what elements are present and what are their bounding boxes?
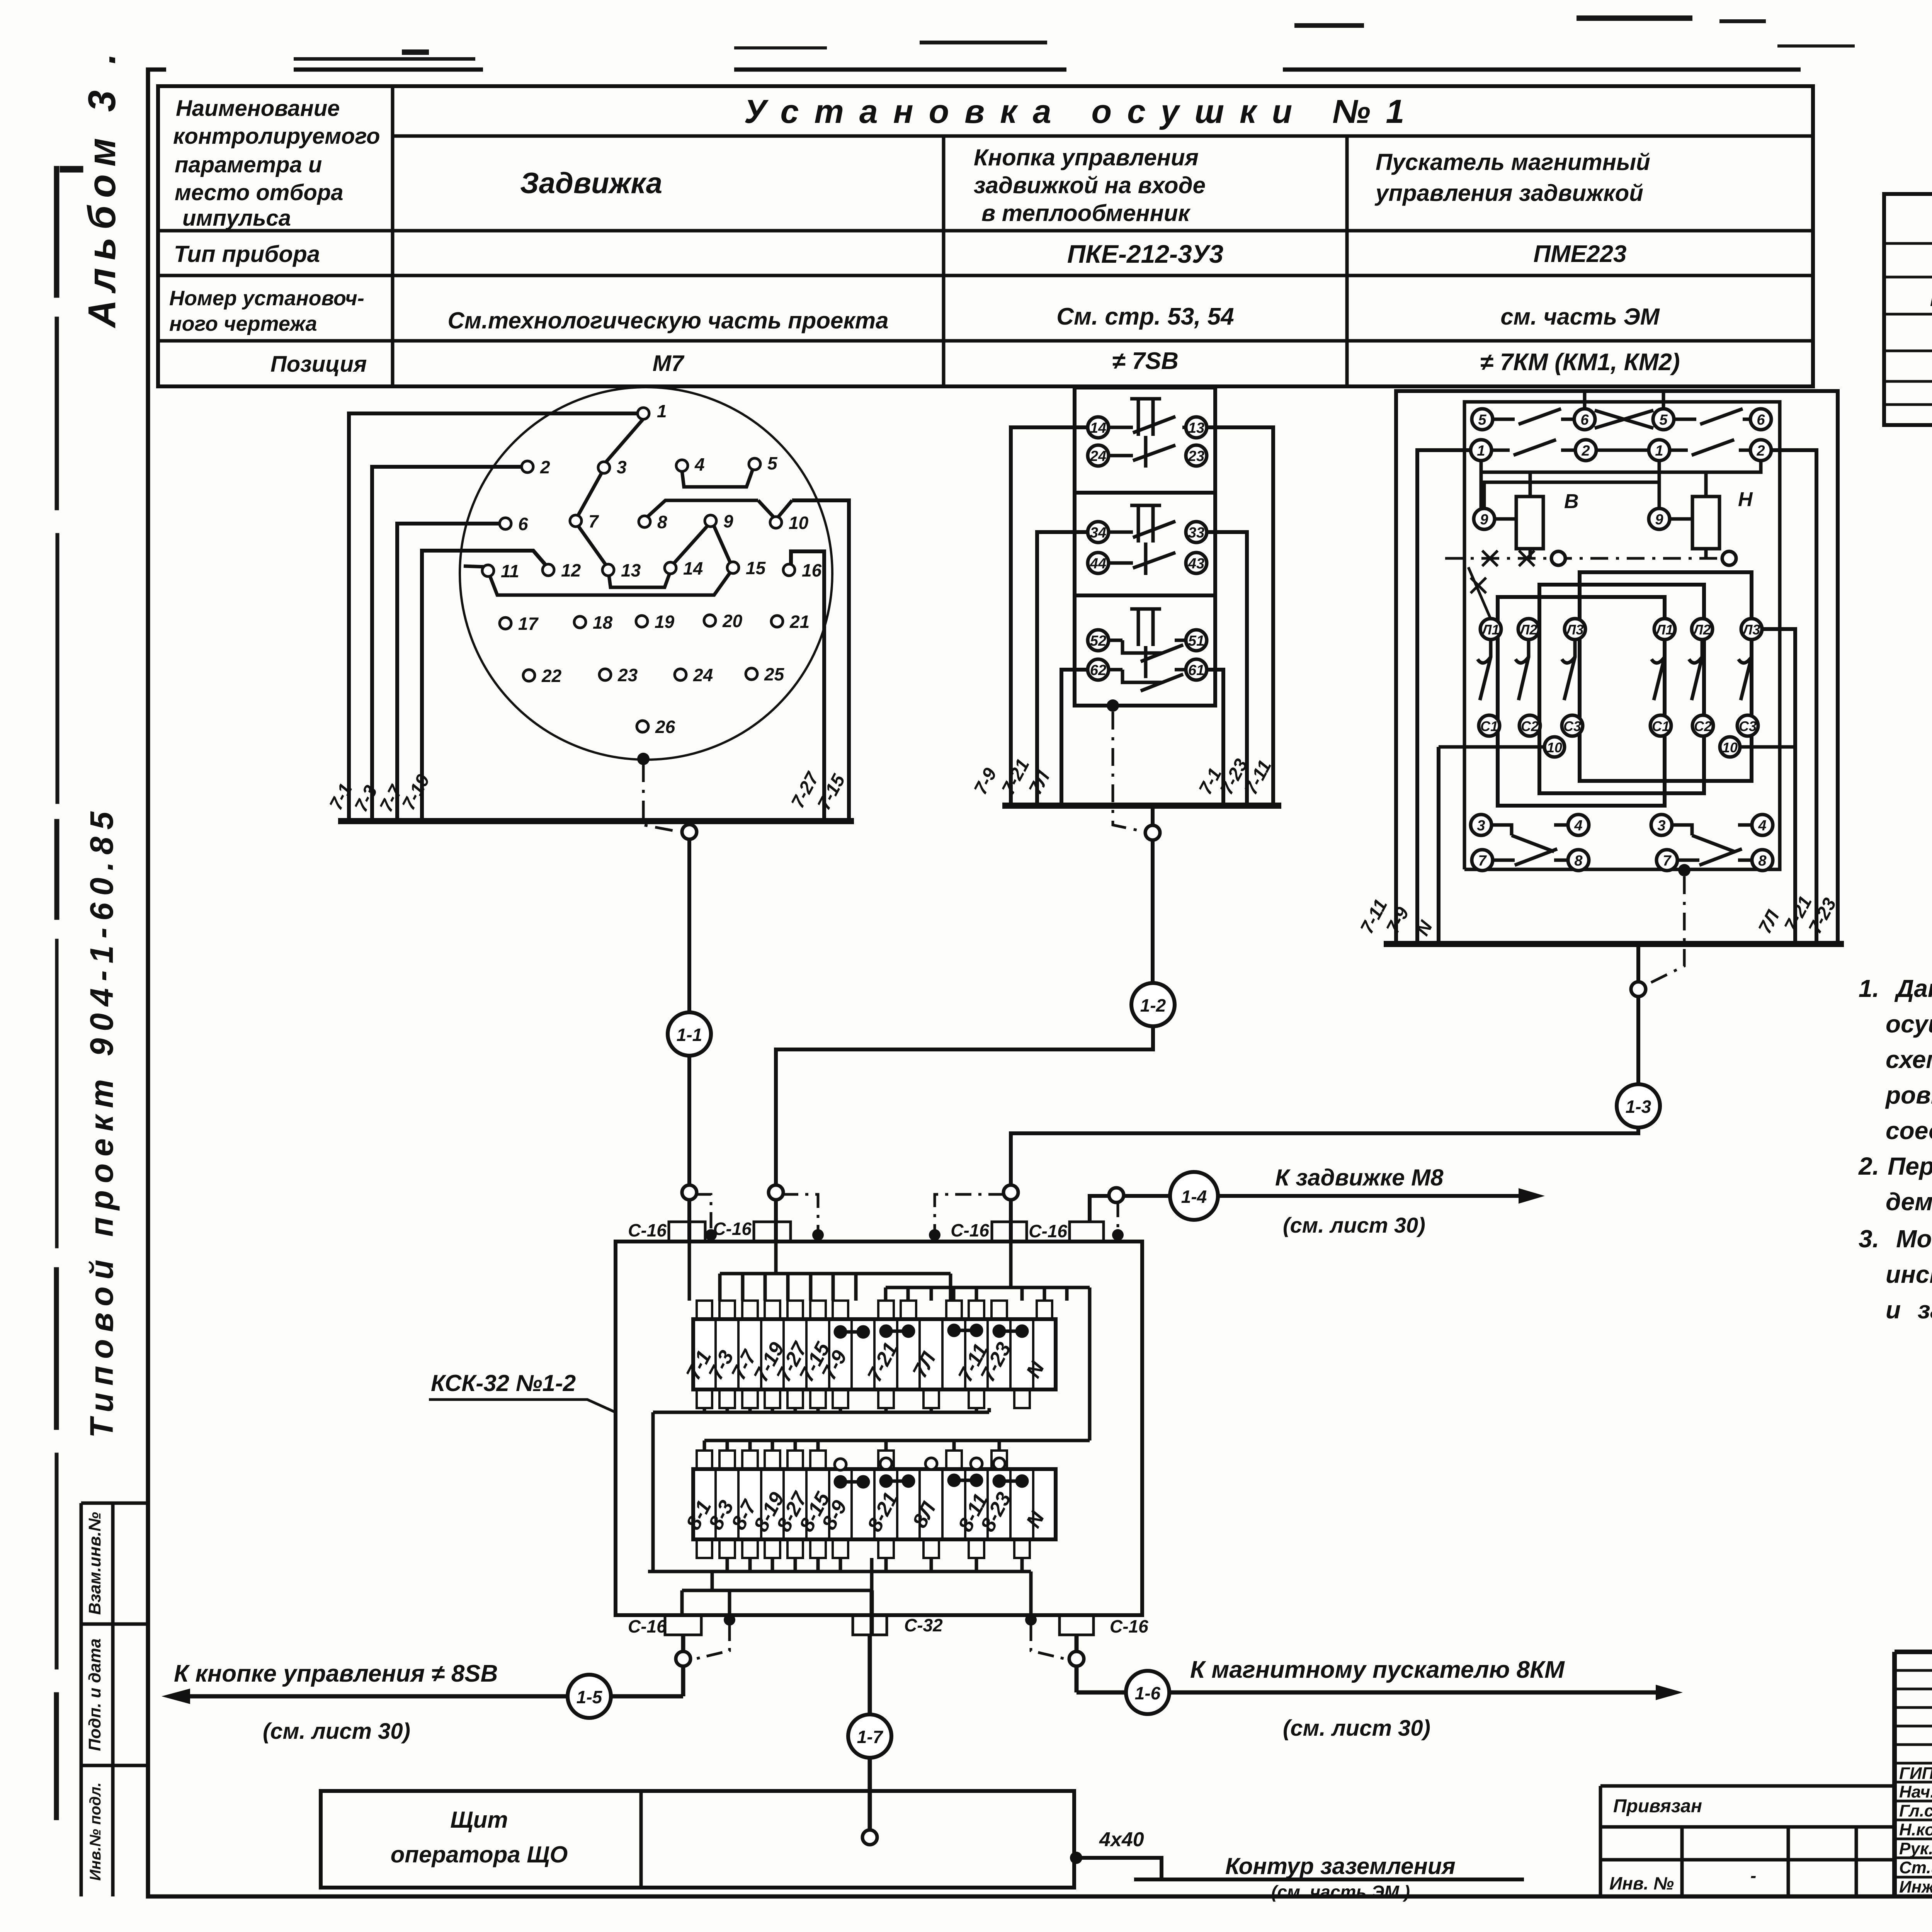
svg-text:23: 23	[617, 665, 638, 685]
svg-text:С1: С1	[1480, 718, 1498, 734]
svg-text:(см. часть ЭМ ): (см. часть ЭМ )	[1271, 1882, 1410, 1902]
svg-text:оператора ЩО: оператора ЩО	[391, 1842, 568, 1867]
svg-text:62: 62	[1090, 662, 1106, 679]
svg-text:место отбора: место отбора	[175, 180, 344, 205]
svg-text:импульса: импульса	[182, 206, 291, 231]
svg-text:Подп. и дата: Подп. и дата	[85, 1638, 104, 1751]
svg-text:контролируемого: контролируемого	[173, 124, 380, 149]
svg-text:См.технологическую часть про: См.технологическую часть проекта	[448, 308, 889, 333]
svg-text:6: 6	[1757, 412, 1765, 428]
svg-text:Н: Н	[1738, 488, 1753, 511]
svg-text:Взам.инв.№: Взам.инв.№	[85, 1512, 104, 1615]
svg-text:Л3: Л3	[1742, 622, 1760, 638]
svg-text:34: 34	[1090, 525, 1106, 541]
svg-text:Наименование: Наименование	[176, 96, 340, 121]
svg-text:7: 7	[1663, 853, 1672, 869]
svg-text:4: 4	[1574, 818, 1582, 834]
svg-text:в теплообменник: в теплообменник	[981, 200, 1191, 226]
svg-text:1: 1	[1477, 443, 1485, 459]
svg-text:20: 20	[722, 611, 743, 631]
svg-text:14: 14	[683, 558, 703, 578]
svg-text:7: 7	[1478, 853, 1487, 869]
svg-text:6: 6	[518, 514, 528, 534]
svg-text:33: 33	[1188, 525, 1204, 541]
svg-text:Привязан: Привязан	[1613, 1796, 1702, 1816]
svg-text:4х40: 4х40	[1099, 1828, 1144, 1851]
svg-text:С1: С1	[1652, 718, 1670, 734]
svg-text:Кнопка управления: Кнопка управления	[974, 145, 1199, 170]
svg-text:9: 9	[1655, 512, 1663, 528]
svg-text:Рук.гр.: Рук.гр.	[1899, 1839, 1932, 1858]
svg-text:44: 44	[1090, 556, 1106, 572]
svg-text:2: 2	[1756, 443, 1765, 459]
svg-text:Нач.отд.: Нач.отд.	[1899, 1782, 1932, 1801]
svg-text:2: 2	[1581, 443, 1590, 459]
svg-text:21: 21	[789, 612, 810, 632]
svg-text:Номер установоч-: Номер установоч-	[169, 287, 364, 310]
svg-text:Л1: Л1	[1655, 622, 1673, 638]
svg-text:≠ 7SB: ≠ 7SB	[1112, 348, 1179, 374]
svg-text:19: 19	[655, 612, 675, 632]
svg-text:8: 8	[657, 512, 667, 532]
svg-text:См. стр. 53, 54: См. стр. 53, 54	[1056, 303, 1234, 330]
svg-text:16: 16	[802, 560, 822, 580]
svg-text:КСК-32 №1-2: КСК-32 №1-2	[431, 1370, 576, 1396]
svg-text:Тип прибора: Тип прибора	[174, 241, 320, 267]
svg-text:С-16: С-16	[628, 1220, 667, 1240]
svg-text:17: 17	[518, 614, 539, 634]
svg-text:управления задвижкой: управления задвижкой	[1374, 180, 1643, 206]
svg-text:В: В	[1564, 490, 1579, 513]
svg-text:параметра и: параметра и	[175, 152, 322, 177]
svg-text:Инв. №: Инв. №	[1609, 1873, 1674, 1893]
svg-text:Полоса стальная: Полоса стальная	[1930, 289, 1932, 310]
svg-text:12: 12	[561, 560, 581, 580]
svg-text:С-16: С-16	[628, 1616, 667, 1636]
svg-text:Контур заземления: Контур заземления	[1225, 1853, 1456, 1879]
svg-text:1: 1	[657, 401, 667, 421]
svg-text:1-1: 1-1	[677, 1025, 702, 1045]
svg-text:Л1: Л1	[1481, 622, 1500, 638]
svg-text:Задвижка: Задвижка	[520, 167, 662, 200]
svg-text:43: 43	[1188, 556, 1204, 572]
svg-text:5: 5	[1659, 412, 1668, 428]
svg-text:3: 3	[617, 457, 627, 477]
svg-text:Альбом 3 .: Альбом 3 .	[80, 46, 124, 329]
svg-text:23: 23	[1188, 448, 1204, 464]
svg-text:С-32: С-32	[904, 1615, 943, 1635]
svg-text:1-4: 1-4	[1181, 1187, 1207, 1207]
svg-text:3: 3	[1477, 818, 1485, 834]
svg-text:соединительной согласно табл: соединительной согласно таблице применим…	[1886, 1117, 1932, 1145]
svg-text:Типовой проект 904-1-60.85: Типовой проект 904-1-60.85	[83, 805, 120, 1438]
svg-text:Л2: Л2	[1519, 622, 1537, 638]
svg-text:Гл.спец.: Гл.спец.	[1899, 1801, 1932, 1820]
svg-text:13: 13	[1188, 420, 1204, 436]
svg-text:3. Монтаж защитного занулен: 3. Монтаж защитного зануления выполнить …	[1859, 1225, 1932, 1253]
svg-text:Н.контр.: Н.контр.	[1899, 1820, 1932, 1839]
svg-text:ГИП: ГИП	[1899, 1764, 1932, 1783]
svg-text:задвижкой на входе: задвижкой на входе	[974, 172, 1206, 198]
svg-text:и зануления ВСН 296-81 М: и зануления ВСН 296-81 ММСС СССР.	[1886, 1296, 1932, 1324]
svg-text:22: 22	[541, 666, 562, 686]
svg-text:Пускатель магнитный: Пускатель магнитный	[1376, 149, 1650, 175]
svg-text:8: 8	[1574, 853, 1583, 869]
svg-text:С-16: С-16	[1110, 1616, 1148, 1636]
svg-text:ровке цепей управления, каб: ровке цепей управления, кабелей, аппарат…	[1885, 1081, 1932, 1109]
svg-text:10: 10	[1547, 740, 1562, 755]
svg-text:14: 14	[1090, 420, 1106, 436]
svg-text:Позиция: Позиция	[270, 352, 367, 377]
svg-text:4: 4	[1758, 818, 1766, 834]
svg-text:ного чертежа: ного чертежа	[169, 312, 317, 335]
svg-text:Установка осушки №1: Установка осушки №1	[744, 93, 1420, 130]
svg-text:ПКЕ-212-3У3: ПКЕ-212-3У3	[1067, 240, 1223, 268]
svg-text:ПМЕ223: ПМЕ223	[1533, 241, 1626, 267]
svg-text:С-16: С-16	[1029, 1221, 1067, 1241]
svg-text:инструкции по монтажу за: инструкции по монтажу защитного заземлен…	[1886, 1260, 1932, 1288]
svg-text:(см. лист 30): (см. лист 30)	[1283, 1716, 1430, 1741]
svg-text:51: 51	[1188, 633, 1204, 649]
svg-text:Щит: Щит	[450, 1807, 508, 1833]
svg-text:Л3: Л3	[1565, 622, 1584, 638]
svg-text:С3: С3	[1563, 718, 1581, 734]
svg-text:5: 5	[1478, 412, 1486, 428]
svg-text:24: 24	[1090, 448, 1106, 464]
svg-text:С2: С2	[1521, 718, 1539, 734]
svg-text:18: 18	[593, 612, 613, 633]
svg-text:2. Перемычки, обозначенные: 2. Перемычки, обозначенные	[1858, 1152, 1932, 1180]
svg-text:С-16: С-16	[951, 1220, 989, 1240]
svg-text:демонтировать.: демонтировать.	[1886, 1188, 1932, 1216]
svg-text:52: 52	[1090, 633, 1106, 649]
svg-text:10: 10	[1722, 740, 1738, 755]
svg-text:≠ 7КМ (КМ1, КМ2): ≠ 7КМ (КМ1, КМ2)	[1480, 349, 1680, 376]
svg-text:С3: С3	[1739, 718, 1757, 734]
svg-text:2: 2	[540, 457, 550, 477]
svg-text:5: 5	[767, 453, 778, 473]
svg-text:8: 8	[1758, 853, 1767, 869]
svg-text:1: 1	[1655, 443, 1663, 459]
svg-text:26: 26	[655, 717, 675, 737]
svg-text:(см. лист 30): (см. лист 30)	[263, 1719, 410, 1744]
svg-text:(см. лист 30): (см. лист 30)	[1283, 1213, 1425, 1237]
svg-text:К магнитному пускателю 8КМ: К магнитному пускателю 8КМ	[1190, 1656, 1565, 1683]
svg-text:9: 9	[1480, 512, 1488, 528]
svg-text:13: 13	[621, 560, 641, 580]
svg-text:С-16: С-16	[713, 1219, 752, 1239]
svg-text:1-7: 1-7	[857, 1727, 884, 1747]
svg-text:см. часть ЭМ: см. часть ЭМ	[1500, 304, 1660, 330]
svg-text:Л2: Л2	[1692, 622, 1711, 638]
svg-text:61: 61	[1188, 662, 1204, 679]
svg-text:-: -	[1750, 1866, 1756, 1886]
svg-text:Инв.№ подл.: Инв.№ подл.	[87, 1782, 104, 1881]
svg-text:7: 7	[588, 511, 599, 531]
svg-text:С2: С2	[1694, 718, 1712, 734]
svg-text:1. Данная схема выполнена: 1. Данная схема выполнена для установки	[1859, 975, 1932, 1002]
svg-text:Инж.: Инж.	[1899, 1878, 1932, 1896]
svg-text:9: 9	[723, 511, 733, 531]
svg-text:25: 25	[764, 664, 785, 684]
svg-text:10: 10	[789, 513, 809, 533]
svg-text:24: 24	[693, 665, 713, 685]
svg-text:К кнопке управления ≠ 8SB: К кнопке управления ≠ 8SB	[174, 1660, 498, 1687]
svg-text:М7: М7	[653, 351, 685, 376]
svg-text:схема аналогична с замен: схема аналогична с заменой индексов в ма…	[1886, 1046, 1932, 1073]
svg-text:11: 11	[501, 561, 519, 581]
svg-text:1-2: 1-2	[1140, 995, 1166, 1015]
svg-text:3: 3	[1657, 818, 1665, 834]
svg-text:1-6: 1-6	[1135, 1683, 1161, 1703]
svg-text:1-3: 1-3	[1626, 1097, 1651, 1117]
svg-text:1-5: 1-5	[577, 1687, 603, 1707]
svg-text:15: 15	[746, 558, 766, 578]
svg-text:6: 6	[1580, 412, 1589, 428]
svg-text:4: 4	[694, 454, 705, 474]
svg-text:К задвижке М8: К задвижке М8	[1275, 1165, 1444, 1190]
svg-text:осушки №1. Для установок: осушки №1. Для установок осушки №2... № …	[1886, 1010, 1932, 1038]
svg-text:Ст.инж.: Ст.инж.	[1899, 1858, 1932, 1877]
